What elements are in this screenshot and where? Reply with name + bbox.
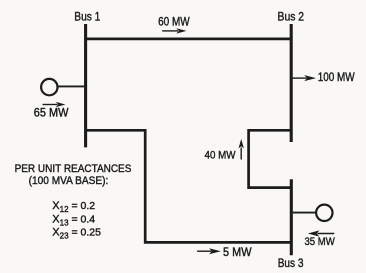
svg-text:35 MW: 35 MW (305, 236, 336, 248)
svg-text:X23 = 0.25: X23 = 0.25 (52, 227, 101, 241)
svg-text:Bus 3: Bus 3 (278, 258, 304, 270)
svg-text:40 MW: 40 MW (205, 150, 237, 162)
svg-text:5 MW: 5 MW (223, 247, 252, 259)
svg-text:60 MW: 60 MW (158, 16, 190, 28)
svg-text:65 MW: 65 MW (34, 107, 69, 119)
svg-text:Bus 2: Bus 2 (278, 12, 305, 24)
svg-text:PER UNIT REACTANCES: PER UNIT REACTANCES (15, 163, 132, 175)
svg-text:100 MW: 100 MW (318, 72, 355, 84)
svg-text:X13 = 0.4: X13 = 0.4 (52, 213, 95, 227)
svg-text:(100 MVA BASE):: (100 MVA BASE): (29, 175, 109, 187)
svg-text:X12 = 0.2: X12 = 0.2 (52, 200, 95, 214)
svg-text:Bus 1: Bus 1 (74, 11, 100, 23)
